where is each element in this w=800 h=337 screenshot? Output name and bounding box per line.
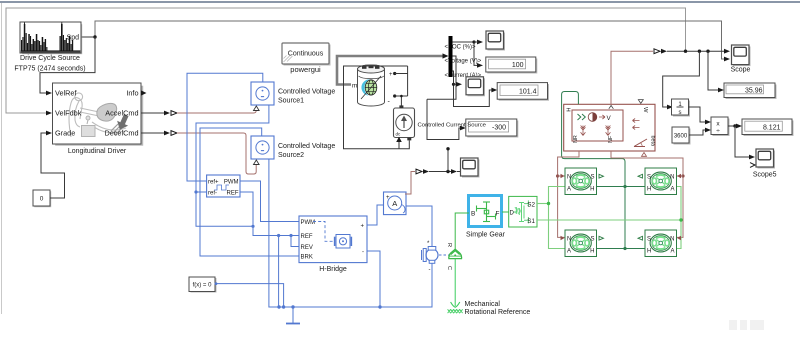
node hub front [623, 185, 626, 188]
wire: 1/s to product [689, 107, 707, 122]
wire: CVS2 minus down to bus [269, 159, 433, 307]
svg-text:Grade: Grade [55, 129, 75, 138]
pedal hatches [111, 124, 122, 135]
block Drive Cycle Source [20, 22, 82, 54]
node bus junctions [277, 305, 280, 308]
block f(x)=0 solver [189, 277, 217, 293]
wire: product to scope5 [735, 126, 750, 157]
svg-text:S: S [590, 237, 594, 243]
wire voltage out [427, 56, 456, 99]
svg-text:NF: NF [608, 135, 614, 143]
svg-text:FTP75 (2474 seconds): FTP75 (2474 seconds) [14, 66, 85, 73]
wire: CVS2 plus loop to BRK [200, 128, 299, 256]
wire: vehicle H to wheels hub net [562, 92, 625, 249]
display block 35.96 [724, 83, 777, 99]
node ammeter signal junction [446, 170, 449, 173]
block Simple Gear highlighted [469, 196, 502, 227]
svg-text:Scope: Scope [731, 67, 751, 74]
wire: 3600 to product [689, 130, 706, 135]
node REF junction 2 [289, 234, 292, 237]
steering wheel [97, 103, 117, 121]
svg-text:dc: dc [396, 132, 402, 137]
svg-text:A: A [567, 187, 571, 193]
svg-text:÷: ÷ [716, 128, 720, 135]
pedal box [82, 126, 96, 137]
node solver out [215, 282, 218, 285]
svg-text:Source1: Source1 [278, 98, 304, 105]
wire: ammeter to motor [406, 206, 432, 247]
wire: H-Bridge + to ammeter [367, 205, 384, 225]
svg-text:D: D [510, 211, 515, 217]
svg-text:N: N [670, 175, 674, 181]
wire: REV branch [291, 236, 299, 247]
wheel rear left [561, 230, 604, 257]
svg-text:S: S [590, 175, 594, 181]
svg-text:F: F [496, 211, 500, 218]
svg-text:S: S [647, 237, 651, 243]
node REF junction 1 [277, 234, 280, 237]
wire: CCS return loop rectangle [344, 66, 410, 149]
svg-text:S2: S2 [527, 202, 535, 209]
wheel front right [638, 168, 681, 195]
display block -300 [466, 119, 519, 138]
wire: AccelCmd to CVS1 control [141, 112, 164, 114]
svg-text:PWM: PWM [301, 220, 316, 226]
wire: CVS1 minus to PWM ref- and REF net [196, 105, 269, 226]
svg-text:A: A [567, 249, 571, 255]
block constant 3600 [672, 127, 691, 145]
svg-text:Controlled Voltage: Controlled Voltage [278, 143, 335, 150]
battery logo [361, 79, 370, 95]
block Longitudinal Driver [53, 83, 144, 146]
wire: DecelCmd to CVS2 control [141, 132, 164, 134]
block current sensor ammeter [384, 192, 407, 215]
wire: vehicle speed V out [611, 51, 653, 104]
svg-text:N: N [567, 237, 571, 243]
W arrows [633, 119, 640, 123]
bus selector [449, 36, 453, 77]
display block 101.4 [497, 83, 549, 101]
svg-text:-300: -300 [492, 125, 506, 132]
block integrator 1/s [672, 99, 691, 117]
port CVS2 control triangle [253, 160, 259, 165]
gear shifter [86, 116, 90, 120]
svg-text:+: + [360, 224, 364, 230]
icon chevrons and circle [578, 114, 586, 120]
wire: speed to integrator [663, 51, 700, 107]
window top border [0, 1, 800, 3]
svg-text:Simple Gear: Simple Gear [466, 232, 506, 239]
block rotational sensor chevron [446, 243, 462, 270]
wire: signal to scope4 [451, 169, 457, 174]
svg-text:REF: REF [227, 191, 239, 197]
svg-text:8.121: 8.121 [763, 125, 781, 132]
force arrows down [581, 126, 611, 136]
window left border [1, 3, 3, 314]
block differential [509, 196, 537, 227]
block powergui [282, 43, 331, 66]
svg-text:Controlled Current Source: Controlled Current Source [418, 123, 487, 129]
svg-text:Mechanical: Mechanical [465, 301, 501, 308]
block DC motor [422, 241, 439, 273]
svg-text:powergui: powergui [290, 65, 321, 74]
svg-text:+: + [386, 195, 390, 201]
svg-text:B: B [471, 211, 475, 218]
node hub rear [623, 247, 626, 250]
block Controlled Current Source [394, 105, 415, 137]
wire current out [453, 71, 493, 107]
wire: REF branch down to bus [278, 236, 280, 308]
svg-text:-: - [429, 267, 431, 273]
display block 100 [486, 57, 538, 74]
block Controlled Voltage Source2 [251, 136, 274, 159]
block scope2 [466, 77, 485, 97]
wire: ref- stub [196, 191, 207, 193]
wire: motor bottom to bus [431, 264, 433, 308]
bus wire battery m to Bus Selector [337, 56, 444, 85]
wire: NR normal force left [558, 151, 579, 237]
svg-text:Spd: Spd [67, 35, 80, 42]
block scope4 [461, 158, 480, 178]
svg-text:A: A [670, 249, 674, 255]
svg-text:AccelCmd: AccelCmd [105, 109, 138, 118]
wire: signal up to CCS loop [447, 149, 449, 172]
svg-text:Scope5: Scope5 [753, 172, 777, 179]
svg-text:Longitudinal Driver: Longitudinal Driver [68, 148, 127, 155]
svg-text:Controlled Voltage: Controlled Voltage [278, 89, 335, 96]
wire: sensor C down to mech reference [454, 259, 456, 306]
svg-text:R: R [446, 243, 452, 247]
port CVS1 control triangle [253, 106, 259, 111]
svg-text:A: A [670, 187, 674, 193]
wire: REF out to H-Bridge REF [240, 192, 299, 236]
svg-text:S: S [647, 175, 651, 181]
svg-text:Info: Info [126, 89, 138, 98]
wire: gear B to rotational sensor [455, 213, 469, 249]
wire: ammeter current signal up [405, 172, 415, 195]
svg-text:Source2: Source2 [278, 152, 304, 159]
block constant 0 [33, 190, 51, 207]
wire: NF normal force right [611, 151, 683, 237]
svg-text:N: N [670, 237, 674, 243]
svg-text:VelFdbk: VelFdbk [55, 109, 82, 118]
driver art [69, 93, 126, 137]
wire: PWM out to H-Bridge PWM [240, 181, 299, 222]
svg-text:-: - [362, 250, 364, 256]
wire soc out [453, 42, 479, 65]
svg-text:REF: REF [301, 234, 313, 240]
wire: H-Bridge - to bus [367, 251, 380, 307]
svg-text:beta: beta [650, 136, 656, 147]
block product divide [711, 117, 730, 136]
svg-text:0: 0 [40, 196, 44, 203]
beta slope [634, 139, 647, 147]
svg-text:NR: NR [573, 135, 579, 143]
wire: axle left S2 net [549, 187, 566, 249]
svg-text:DecelCmd: DecelCmd [104, 129, 138, 138]
block Scope5 [750, 149, 775, 169]
svg-text:m: m [352, 83, 357, 90]
block Controlled Voltage Source1 [251, 82, 274, 105]
node ref- junction [194, 190, 197, 193]
node: spd junction [93, 35, 96, 38]
battery block [358, 65, 385, 106]
svg-text:3600: 3600 [674, 134, 688, 140]
svg-text:100: 100 [512, 62, 524, 69]
svg-text:H: H [647, 187, 651, 193]
svg-text:S1: S1 [527, 218, 535, 225]
block H-Bridge [299, 216, 367, 263]
svg-text:s: s [679, 110, 682, 116]
svg-text:+: + [389, 72, 393, 78]
wheel front left [561, 168, 604, 195]
mechanical rotational reference [448, 302, 463, 313]
wire: motor shaft dashed to rotational sensor [439, 254, 449, 256]
wire: spd down to VelRef [40, 37, 95, 93]
wire: battery plus U loop [395, 73, 408, 75]
svg-text:H-Bridge: H-Bridge [319, 266, 347, 273]
svg-text:35.96: 35.96 [745, 88, 763, 95]
svg-text:BRK: BRK [301, 255, 313, 261]
block Scope [732, 45, 751, 66]
node speed junctions [684, 50, 687, 53]
svg-text:ref-: ref- [208, 191, 217, 197]
svg-text:C: C [446, 266, 452, 270]
svg-text:Continuous: Continuous [288, 51, 324, 58]
wire: product to display 8.121 [728, 125, 735, 127]
block scope1 [486, 31, 505, 51]
wire: into -300 display [427, 99, 461, 139]
svg-text:A: A [392, 199, 397, 208]
wire: speed to display 35.96 [708, 51, 719, 90]
svg-text:101.4: 101.4 [519, 89, 537, 96]
wire: rear hub line [597, 248, 646, 250]
svg-text:REV: REV [301, 245, 313, 251]
watermark [729, 320, 764, 330]
svg-text:VelRef: VelRef [55, 89, 77, 98]
wire: drive cycle speed reference to scope (top y=21) [95, 21, 725, 59]
wire: Spd output to junction [81, 36, 95, 38]
gray accel arrow [114, 113, 131, 132]
display block 8.121 [742, 119, 794, 136]
wire: solver to bus [215, 284, 284, 307]
wire: CVS1 plus to PWM ref+ [187, 73, 263, 181]
svg-text:Drive Cycle Source: Drive Cycle Source [20, 55, 80, 62]
svg-text:H: H [647, 249, 651, 255]
svg-text:H: H [590, 249, 594, 255]
svg-text:H: H [590, 187, 594, 193]
wire: constant 0 to Grade [41, 133, 65, 198]
wire: front hub line [597, 186, 646, 188]
wire: vehicle speed feedback loop (top y=8, left x=6, into VelFdbk) [6, 8, 686, 113]
block Controlled PWM Voltage [207, 175, 240, 197]
ground electrical reference [292, 307, 294, 323]
block Vehicle Body [564, 100, 656, 157]
wire: axle right S1 net [537, 219, 681, 221]
svg-text:N: N [567, 175, 571, 181]
svg-text:f(x) = 0: f(x) = 0 [193, 283, 213, 289]
wire: gear F to differential D [502, 211, 509, 213]
port CCS control arrow [398, 142, 400, 149]
wire: battery minus to CCS top [395, 95, 408, 97]
port Info output nub [141, 90, 147, 95]
svg-text:H: H [565, 108, 571, 112]
wheel rear right [638, 230, 681, 257]
svg-text:Rotational Reference: Rotational Reference [465, 309, 531, 316]
svg-text:W: W [642, 107, 648, 113]
